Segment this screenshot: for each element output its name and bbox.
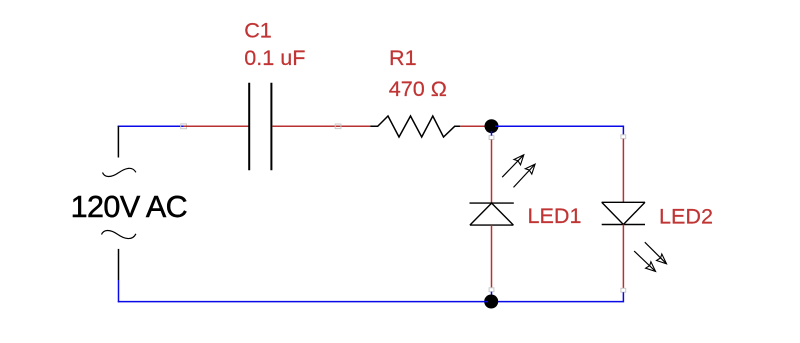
pin square P6 (LED1 bottom pin)	[489, 288, 494, 292]
AC source V1 bottom lead	[118, 249, 120, 280]
AC source V1 lower tilde	[102, 230, 136, 238]
AC source V1 upper tilde	[103, 168, 136, 176]
svg-text:470 Ω: 470 Ω	[389, 76, 447, 101]
pin square P3 (LED2 top pin)	[621, 135, 626, 139]
wire top-left blue segment	[118, 125, 184, 127]
wire red segment C1 left lead	[184, 125, 249, 127]
LED D1 symbol	[470, 203, 514, 225]
wire red segment LED2 cathode lead	[622, 225, 624, 289]
LED2 emission arrow lower	[634, 251, 656, 272]
LED2 emission arrow upper	[645, 242, 667, 264]
pin square P1 (C1 left pin)	[181, 124, 187, 129]
wire red segment LED1 cathode lead	[491, 140, 493, 204]
wire blue stub node A down	[491, 131, 493, 136]
wire red segment LED1 anode lead	[491, 225, 493, 288]
wire blue bottom-right corner	[495, 292, 623, 301]
svg-text:R1: R1	[389, 45, 417, 70]
svg-text:0.1 uF: 0.1 uF	[244, 45, 305, 70]
wire red segment LED2 anode lead	[622, 139, 624, 203]
wire blue left rail bottom segment	[118, 280, 120, 302]
node B junction dot	[484, 295, 498, 309]
wire red segment R1 to node A	[460, 125, 488, 127]
capacitor C1	[249, 83, 271, 171]
pin square P2 (C1 right pin)	[335, 124, 341, 129]
svg-text:LED1: LED1	[528, 203, 582, 228]
svg-text:C1: C1	[244, 18, 272, 43]
resistor R1	[370, 116, 460, 137]
wire red segment C1 right lead	[272, 125, 370, 127]
wire blue top segment node A to right rail	[495, 126, 623, 135]
pin square P4 (LED2 bottom pin)	[621, 288, 626, 292]
pin square P5 (LED1 top pin)	[489, 136, 494, 140]
wire blue bottom rail	[118, 301, 488, 303]
node A junction dot	[485, 119, 499, 133]
wire blue stub to node B	[491, 292, 493, 297]
LED1 emission arrow upper	[502, 155, 524, 177]
LED D2 symbol	[602, 202, 645, 224]
svg-text:120V AC: 120V AC	[71, 190, 188, 224]
svg-text:LED2: LED2	[659, 204, 713, 229]
AC source V1 top lead	[117, 126, 119, 157]
LED1 emission arrow lower	[514, 164, 536, 187]
